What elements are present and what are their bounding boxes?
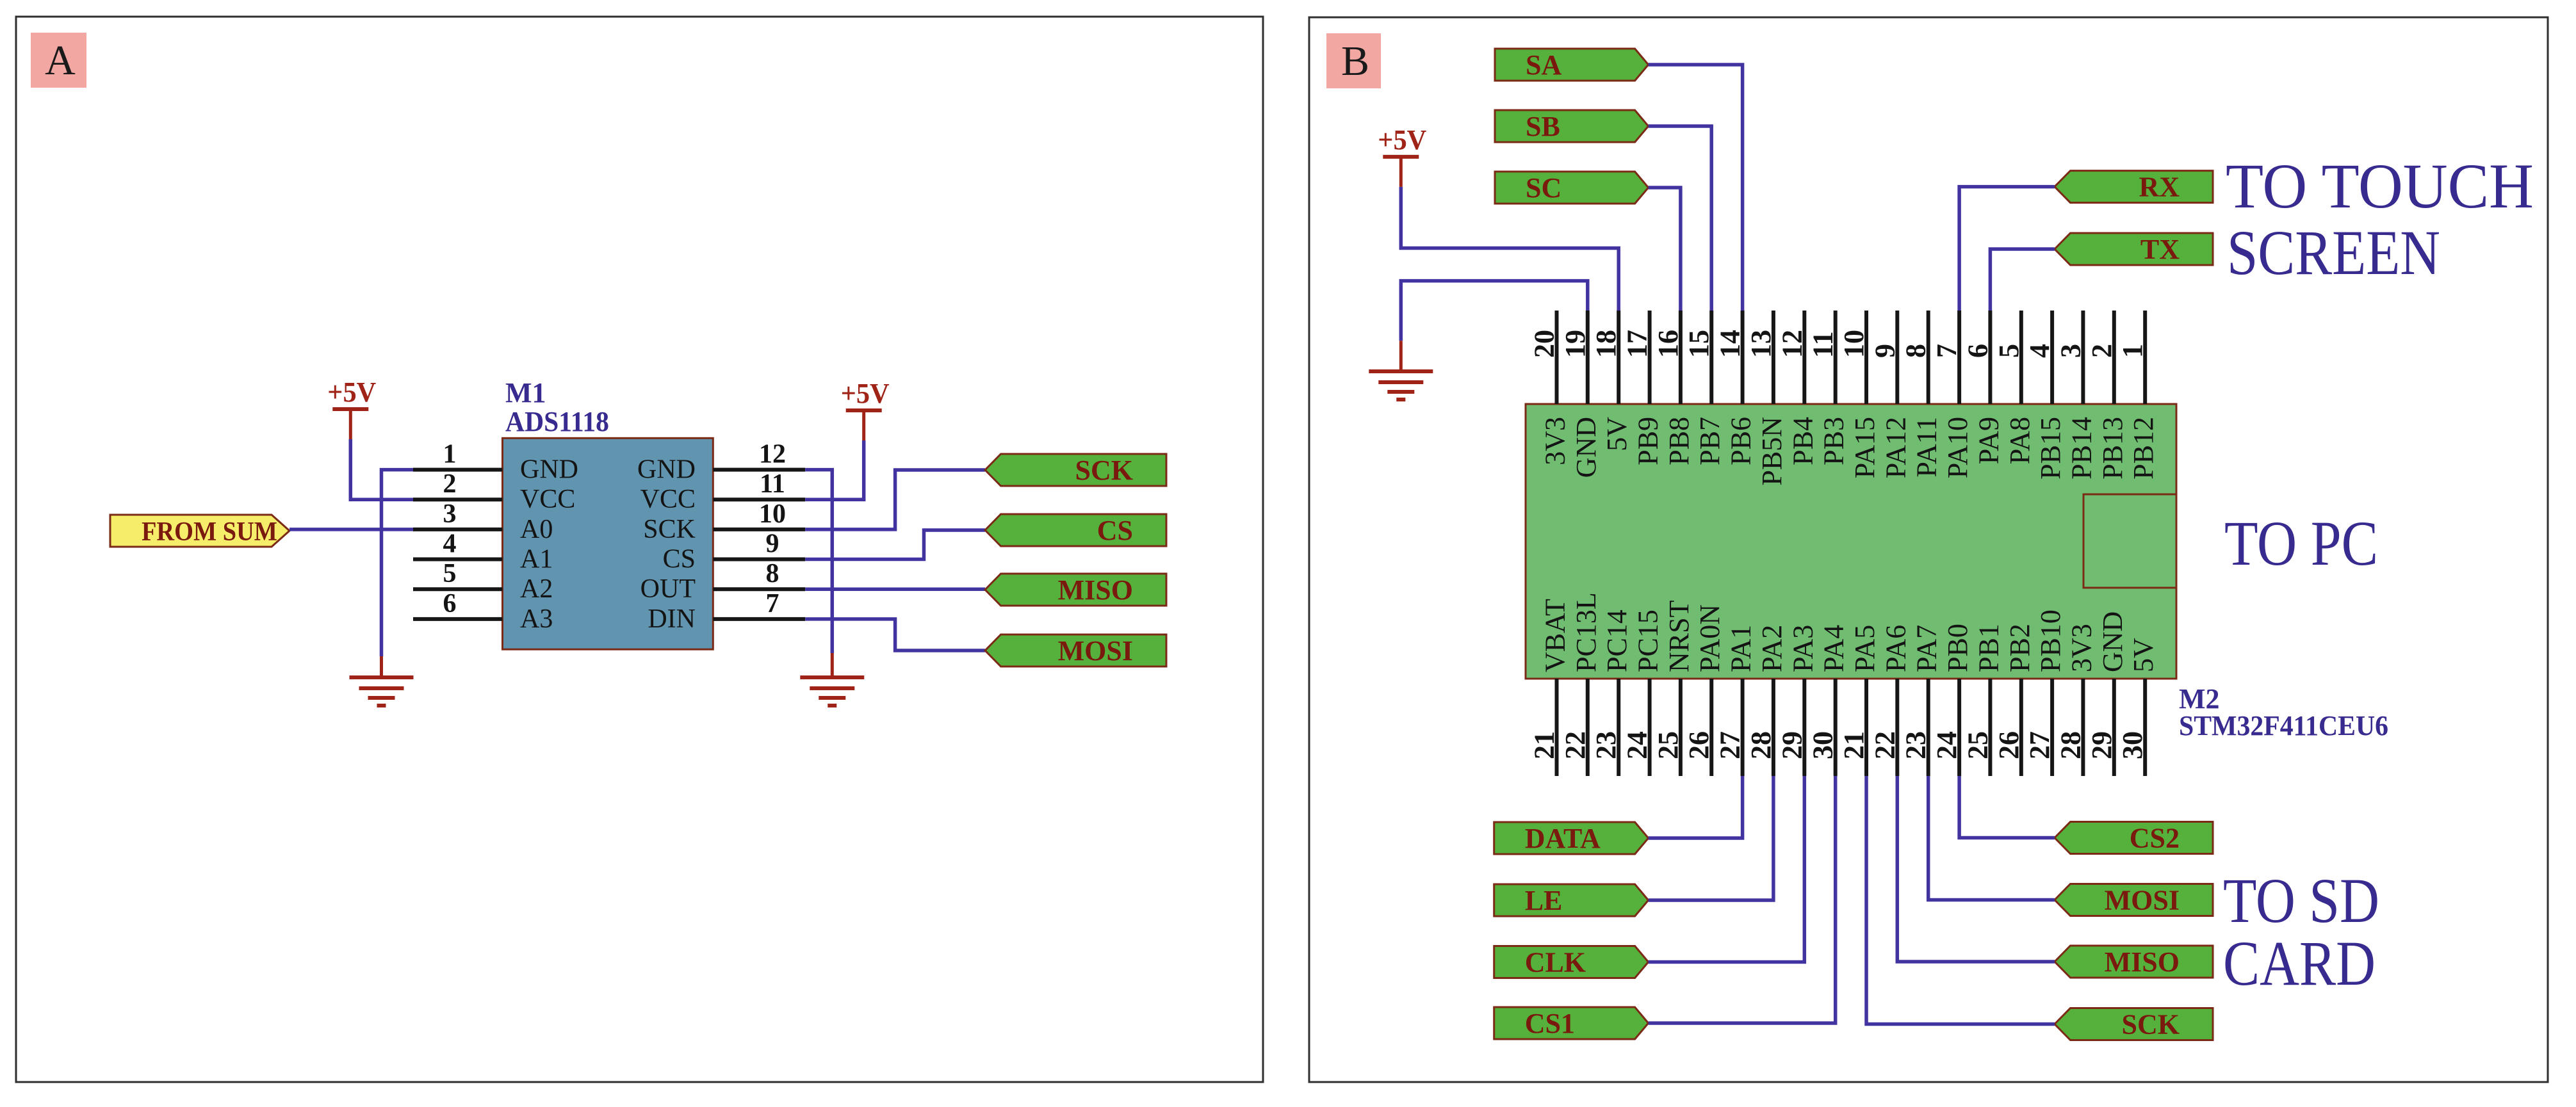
svg-text:PA6: PA6 [1880,625,1911,672]
net flag CS2 [2055,822,2213,854]
svg-text:5: 5 [1993,344,2025,358]
M2 bottom pin 26 (bank 1) line [1709,679,1713,776]
M2 top pin 1 line [2143,311,2147,404]
svg-text:PB3: PB3 [1818,417,1850,465]
svg-text:23: 23 [1900,731,1932,759]
svg-text:TX: TX [2140,234,2180,265]
svg-text:9: 9 [766,529,779,559]
net flag TX [2055,233,2213,265]
M2 top pin 11 line [1834,311,1838,404]
M2 bottom pin 30 (bank 2) line [2143,679,2147,776]
wire LE to M2 pin 28 PA2 [1649,776,1773,900]
M1 pin 11 line [713,497,805,501]
svg-text:1: 1 [2117,344,2148,358]
svg-text:VCC: VCC [520,485,575,514]
svg-text:PA12: PA12 [1880,417,1911,478]
svg-text:A0: A0 [520,515,553,544]
svg-text:GND: GND [520,455,578,485]
svg-text:LE: LE [1525,885,1563,916]
svg-text:PB1: PB1 [1973,624,2004,672]
ground GND2 (right of M1) [800,677,864,706]
svg-text:PB2: PB2 [2004,624,2035,672]
M2 bottom pin 23 (bank 2) line [1927,679,1930,776]
svg-text:PA3: PA3 [1787,625,1818,672]
svg-text:GND: GND [637,455,696,485]
svg-text:PB14: PB14 [2066,417,2097,480]
mcu chip M2 STM32F411CEU6 [1526,404,2176,679]
wire SC to M2 pin 16 PB8 [1649,188,1681,311]
net flag SCK (panel A) [985,454,1166,486]
svg-text:STM32F411CEU6: STM32F411CEU6 [2179,710,2388,741]
svg-text:28: 28 [2055,731,2086,759]
svg-text:PA10: PA10 [1942,417,1973,478]
svg-text:+5V: +5V [327,376,376,408]
M2 top pin 13 line [1772,311,1775,404]
wire SCK to M2 pin 21 PA5 [1866,776,2055,1024]
svg-text:PB8: PB8 [1663,417,1695,465]
svg-text:3: 3 [443,499,457,529]
net flag CS1 [1494,1007,1649,1039]
svg-text:CARD: CARD [2223,928,2376,999]
net flag MISO (panel B) [2055,946,2213,978]
svg-text:17: 17 [1622,330,1653,358]
M2 bottom pin 24 (bank 1) line [1648,679,1652,776]
svg-text:PB9: PB9 [1633,417,1664,465]
svg-text:PA4: PA4 [1818,625,1850,672]
svg-text:30: 30 [1807,731,1839,759]
svg-text:7: 7 [1931,344,1962,358]
net flag FROM SUM (input port) [110,515,289,547]
M1 pin 3 line [413,528,503,531]
svg-text:PB4: PB4 [1787,417,1818,465]
svg-text:PB10: PB10 [2035,610,2066,672]
wire M1 pin 8 OUT to flag MISO [805,587,985,591]
svg-text:CS1: CS1 [1525,1008,1575,1039]
wire ground red stub left [380,656,383,677]
svg-text:GND: GND [2097,611,2128,672]
M1 pin 6 line [413,617,503,621]
svg-text:27: 27 [2024,731,2055,759]
svg-text:27: 27 [1715,731,1746,759]
svg-text:13: 13 [1745,330,1777,358]
M2 bottom pin 23 (bank 1) line [1617,679,1620,776]
wire FROM SUM to M1 pin 3 A0 [289,528,413,531]
svg-text:24: 24 [1931,731,1962,759]
M2 bottom pin 25 (bank 1) line [1679,679,1683,776]
M1 pin 7 line [713,617,805,621]
svg-text:B: B [1341,38,1369,85]
svg-text:29: 29 [1776,731,1807,759]
svg-text:MISO: MISO [1058,574,1133,606]
svg-text:20: 20 [1529,330,1560,358]
svg-text:PA0N: PA0N [1694,604,1725,672]
M2 top pin 17 line [1648,311,1652,404]
svg-text:29: 29 [2086,731,2117,759]
svg-text:23: 23 [1590,731,1622,759]
svg-text:PA2: PA2 [1756,625,1788,672]
svg-text:PB13: PB13 [2097,417,2128,480]
M2 top pin 16 line [1679,311,1683,404]
wire CS1 to M2 pin 30 PA4 [1649,776,1836,1023]
svg-text:GND: GND [1570,417,1602,478]
svg-text:12: 12 [759,440,786,469]
panel B frame [1309,17,2548,1082]
svg-text:21: 21 [1838,731,1870,759]
svg-text:16: 16 [1652,330,1684,358]
wire MISO to M2 pin 22 PA6 [1897,776,2055,962]
wire SA to M2 pin 14 PB6 [1649,65,1743,311]
net flag MOSI (panel A) [985,634,1166,667]
svg-text:SB: SB [1526,111,1560,142]
ground GND3 (panel B) [1369,371,1433,400]
svg-text:25: 25 [1962,731,1993,759]
M2 bottom pin 26 (bank 2) line [2019,679,2023,776]
svg-text:25: 25 [1652,731,1684,759]
wire M1 pin 9 CS to flag CS [805,530,985,560]
svg-text:10: 10 [1838,330,1870,358]
svg-text:22: 22 [1560,731,1591,759]
svg-text:SCREEN: SCREEN [2227,217,2440,288]
svg-text:1: 1 [443,440,457,469]
svg-text:3V3: 3V3 [1540,417,1571,465]
svg-text:VBAT: VBAT [1540,599,1571,672]
M2 top pin 15 line [1709,311,1713,404]
wire CS2 to M2 pin 24 PB0 [1959,776,2055,838]
M2 bottom pin 29 (bank 1) line [1802,679,1806,776]
M2 bottom pin 22 (bank 1) line [1586,679,1590,776]
wire DATA to M2 pin 27 PA1 [1649,776,1743,838]
svg-text:TO SD: TO SD [2223,865,2379,936]
M1 pin 9 line [713,558,805,562]
svg-text:ADS1118: ADS1118 [505,406,609,437]
wire CLK to M2 pin 29 PA3 [1649,776,1805,962]
M1 pin 1 line [413,468,503,472]
M2 bottom pin 28 (bank 1) line [1772,679,1775,776]
wire SB to M2 pin 15 PB7 [1649,126,1712,311]
svg-text:CS: CS [663,545,696,574]
svg-text:PB5N: PB5N [1756,417,1788,486]
M1 pin 8 line [713,587,805,591]
svg-text:PA8: PA8 [2004,417,2035,464]
svg-text:19: 19 [1560,330,1591,358]
wire +5V B to M2 pin 18 5V [1401,187,1618,311]
wire MOSI to M2 pin 23 PA7 [1928,776,2055,900]
svg-text:SCK: SCK [1075,455,1133,486]
M2 top pin 7 line [1957,311,1961,404]
svg-text:5: 5 [443,559,457,588]
svg-text:A1: A1 [520,545,553,574]
svg-text:MISO: MISO [2105,946,2180,978]
M2 connector notch (TO PC port) [2083,494,2176,588]
svg-text:TO TOUCH: TO TOUCH [2226,150,2534,222]
panel A label box [31,33,86,88]
svg-text:28: 28 [1745,731,1777,759]
svg-text:11: 11 [1807,331,1839,358]
net flag SB [1495,110,1649,142]
svg-text:M1: M1 [505,377,546,408]
svg-text:PA9: PA9 [1973,417,2004,464]
power +5V PWR2 (right of M1) [841,378,890,440]
M2 top pin 6 line [1988,311,1992,404]
svg-text:DATA: DATA [1525,823,1601,854]
svg-text:PA15: PA15 [1849,417,1880,478]
svg-text:OUT: OUT [640,574,696,604]
wire M1 pin 12 GND down to ground right [805,470,832,653]
svg-text:VCC: VCC [640,485,696,514]
svg-text:+5V: +5V [1378,124,1426,156]
svg-text:22: 22 [1869,731,1900,759]
svg-text:PA7: PA7 [1911,625,1943,672]
svg-text:12: 12 [1776,330,1807,358]
wire RX to M2 pin 7 PA10 [1959,187,2055,311]
M2 top pin 8 line [1927,311,1930,404]
svg-text:3V3: 3V3 [2066,624,2097,672]
svg-text:MOSI: MOSI [2105,885,2180,916]
svg-text:RX: RX [2139,172,2180,203]
M2 top pin 20 line [1555,311,1559,404]
svg-text:SC: SC [1526,172,1561,204]
svg-text:26: 26 [1683,731,1715,759]
wire +5V right to M1 pin 11 VCC [805,440,864,499]
svg-text:11: 11 [760,469,785,499]
svg-text:PC15: PC15 [1633,610,1664,672]
net flag MISO (panel A) [985,574,1166,606]
M1 pin 2 line [413,497,503,501]
svg-text:PB15: PB15 [2035,417,2066,480]
svg-text:2: 2 [2086,344,2117,358]
svg-text:15: 15 [1683,330,1715,358]
svg-text:PC14: PC14 [1601,610,1633,672]
svg-text:SCK: SCK [2122,1009,2180,1040]
svg-text:30: 30 [2117,731,2148,759]
wire M2 pin 19 GND to ground B [1401,281,1588,341]
M2 top pin 12 line [1802,311,1806,404]
M2 top pin 9 line [1895,311,1899,404]
svg-text:PB12: PB12 [2128,417,2159,480]
svg-text:6: 6 [443,589,457,618]
svg-text:4: 4 [2024,344,2055,358]
svg-text:NRST: NRST [1663,600,1695,672]
M1 pin 5 line [413,587,503,591]
svg-text:24: 24 [1622,731,1653,759]
M2 top pin 10 line [1864,311,1868,404]
ground GND1 (left of M1) [350,677,414,706]
wire +5V left to M1 pin 2 VCC [350,439,413,499]
power +5V PWR1 (left of M1) [327,376,376,439]
net flag MOSI (panel B) [2055,884,2213,916]
M2 bottom pin 21 (bank 1) line [1555,679,1559,776]
M2 bottom pin 27 (bank 1) line [1741,679,1745,776]
net flag CLK [1494,946,1649,978]
svg-text:4: 4 [443,529,457,559]
wire ground red stub B [1399,341,1403,371]
svg-text:CLK: CLK [1525,947,1586,978]
svg-text:SA: SA [1526,49,1561,81]
M2 bottom pin 30 (bank 1) line [1834,679,1838,776]
power +5V PWR3 (panel B) [1378,124,1426,187]
svg-text:A2: A2 [520,574,553,604]
svg-text:TO PC: TO PC [2224,508,2378,579]
svg-text:26: 26 [1993,731,2025,759]
M2 top pin 3 line [2081,311,2085,404]
svg-text:PB6: PB6 [1725,417,1757,465]
M1 pin 4 line [413,558,503,562]
svg-text:5V: 5V [2128,638,2159,672]
panel B label box [1326,33,1381,88]
svg-text:FROM SUM: FROM SUM [142,517,277,547]
svg-text:PB7: PB7 [1694,417,1725,465]
net flag SCK (panel B) [2055,1008,2213,1040]
M2 top pin 2 line [2112,311,2116,404]
M2 top pin 18 line [1617,311,1620,404]
svg-text:A3: A3 [520,604,553,634]
M1 pin 12 line [713,468,805,472]
M2 bottom pin 27 (bank 2) line [2050,679,2054,776]
svg-text:5V: 5V [1601,417,1633,451]
svg-text:14: 14 [1715,330,1746,358]
svg-text:DIN: DIN [648,604,696,634]
net flag DATA [1494,822,1649,854]
svg-text:PC13L: PC13L [1570,592,1602,672]
svg-text:10: 10 [759,499,786,529]
svg-text:7: 7 [766,589,779,618]
M2 top pin 5 line [2019,311,2023,404]
net flag LE [1494,884,1649,916]
svg-text:A: A [45,37,76,84]
svg-text:8: 8 [766,559,779,588]
wire M1 pin 10 SCK to flag SCK [805,470,985,529]
wire ground red stub right [831,653,834,677]
M2 bottom pin 25 (bank 2) line [1988,679,1992,776]
svg-text:8: 8 [1900,344,1932,358]
panel A frame [16,17,1263,1082]
M2 bottom pin 29 (bank 2) line [2112,679,2116,776]
M2 bottom pin 22 (bank 2) line [1895,679,1899,776]
net flag RX [2055,171,2213,203]
svg-text:CS: CS [1097,515,1133,546]
svg-text:9: 9 [1869,344,1900,358]
svg-text:PA1: PA1 [1725,625,1757,672]
svg-text:21: 21 [1529,731,1560,759]
M2 bottom pin 21 (bank 2) line [1864,679,1868,776]
svg-text:PA5: PA5 [1849,625,1880,672]
svg-text:6: 6 [1962,344,1993,358]
wire M1 pin 1 GND down to ground [382,470,414,656]
wire M1 pin 7 DIN to flag MOSI [805,619,985,650]
M2 bottom pin 28 (bank 2) line [2081,679,2085,776]
wire TX to M2 pin 6 PA9 [1990,249,2055,311]
M1 pin 10 line [713,528,805,531]
svg-text:3: 3 [2055,344,2086,358]
net flag SC [1495,172,1649,204]
svg-text:CS2: CS2 [2130,823,2180,854]
svg-text:SCK: SCK [643,515,696,544]
net flag CS (panel A) [985,514,1166,546]
svg-text:MOSI: MOSI [1058,635,1133,667]
M2 top pin 14 line [1741,311,1745,404]
svg-text:PA11: PA11 [1911,417,1943,478]
annotation TO SD CARD [2223,865,2379,999]
M2 bottom pin 24 (bank 2) line [1957,679,1961,776]
svg-text:2: 2 [443,469,457,499]
svg-text:18: 18 [1590,330,1622,358]
op chip M1 ADS1118 [503,438,713,649]
M2 top pin 4 line [2050,311,2054,404]
net flag SA [1495,49,1649,81]
M2 top pin 19 line [1586,311,1590,404]
svg-text:+5V: +5V [841,378,890,409]
annotation TO TOUCH SCREEN [2226,150,2534,288]
svg-text:PB0: PB0 [1942,624,1973,672]
